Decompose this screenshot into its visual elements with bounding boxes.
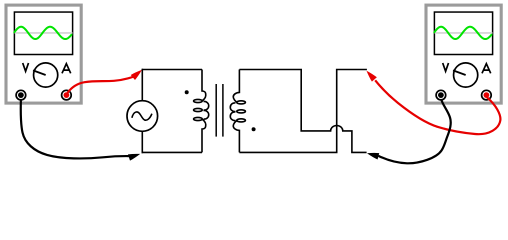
transformer T1 secondary winding	[230, 70, 239, 153]
AC source V1	[127, 101, 158, 132]
meter M1 sine trace	[14, 27, 72, 39]
wire: primary loop top (node A)	[142, 69, 202, 71]
M1 black lead arrowhead	[128, 154, 140, 161]
meter M2 body frame	[426, 5, 501, 103]
wire: primary loop left below source	[141, 131, 143, 153]
meter M2 red terminal	[482, 90, 492, 100]
M1 red lead arrowhead	[131, 70, 142, 80]
meter M1 body frame	[6, 5, 81, 103]
wire: primary loop left above source	[141, 69, 143, 101]
meter M2 sine trace	[434, 27, 492, 39]
wire: secondary top to test point (with hop), node C	[239, 70, 366, 153]
meter M1 dial	[34, 63, 58, 87]
T1 primary phase dot	[185, 90, 189, 94]
wire: M1 black test lead	[21, 100, 129, 159]
meter M2 dial	[454, 63, 478, 87]
wire: M1 red test lead	[68, 77, 134, 93]
meter M2 screen centerline	[435, 32, 493, 34]
transformer T1 primary winding	[202, 70, 209, 153]
wire: M2 black test lead	[378, 100, 450, 164]
AC source sine symbol	[132, 112, 152, 120]
meter M2 screen	[434, 12, 492, 54]
meter M1 screen	[14, 12, 72, 54]
transformer T1 core	[215, 84, 217, 137]
wire: primary loop bottom (node B)	[142, 151, 203, 153]
meter M2 label V	[443, 63, 449, 71]
meter M1 needle	[33, 70, 46, 75]
M2 black lead arrowhead	[367, 153, 379, 160]
meter M1 label A	[62, 64, 71, 74]
wire: M2 red test lead	[375, 80, 500, 134]
meter M2 black terminal (COM)	[436, 90, 446, 100]
wire: secondary bottom to test point, node D	[239, 70, 367, 153]
meter M1 label V	[23, 63, 29, 71]
M2 red lead arrowhead	[367, 71, 377, 82]
T1 secondary phase dot	[252, 127, 256, 131]
meter M1 black terminal (COM)	[16, 90, 26, 100]
meter M1 screen centerline	[15, 32, 73, 34]
meter M1 red terminal	[62, 90, 72, 100]
meter M2 label A	[482, 64, 491, 74]
meter M2 needle	[453, 70, 466, 75]
